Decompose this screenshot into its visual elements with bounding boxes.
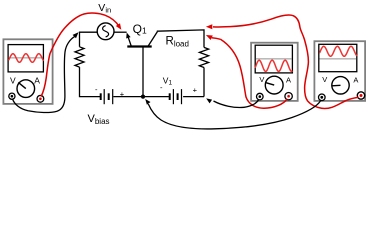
red probe wire: meter 3 red terminal looping left and over the top to R_load top node: [213, 15, 359, 109]
red probe wire: meter 2 red terminal to R_load top node: [221, 39, 288, 108]
circuit schematic: common-base amplifier with three multimeters: [0, 0, 371, 136]
meter 2 black terminal: [257, 93, 264, 100]
svg-text:Q1: Q1: [133, 22, 147, 36]
AC source V_in (circle with sine squiggle): [97, 23, 114, 40]
meter 1 waveform: [9, 54, 43, 63]
meter 1 black terminal: [9, 93, 15, 99]
meter 1 body (input voltmeter): [3, 39, 52, 104]
svg-text:Vbias: Vbias: [88, 113, 110, 126]
transistor base lead down to junction: [142, 47, 144, 97]
svg-text:A: A: [34, 75, 40, 85]
meter 2 waveform: [255, 60, 292, 71]
meter 3 screen center line: [320, 58, 357, 60]
svg-text:Rload: Rload: [166, 36, 189, 49]
svg-text:V: V: [10, 75, 16, 85]
transistor Q1 base bar: [127, 45, 151, 47]
resistor R_load zigzag: [199, 47, 208, 67]
meter 3 black terminal: [319, 94, 326, 101]
wire: bottom rail V1 to R_load bottom corner: [183, 96, 204, 98]
meter 3 body (voltmeter collector-emitter): [314, 41, 365, 101]
black probe wire: meter 2 black terminal to R_load bottom / V1+ node: [214, 100, 259, 108]
wire: R_load bottom lead down to bottom rail corner: [203, 68, 205, 97]
meter 2 knob: [265, 76, 283, 94]
svg-text:A: A: [286, 75, 291, 84]
meter 2 screen: [255, 45, 292, 73]
transistor Q1 emitter lead with arrow: [128, 36, 131, 46]
wire: resistor bottom to bottom rail: [80, 67, 101, 97]
meter 1 knob: [17, 80, 35, 98]
svg-text:V: V: [322, 75, 327, 84]
meter 1 screen: [8, 45, 43, 72]
meter 3 screen: [319, 44, 357, 71]
svg-text:Vin: Vin: [98, 2, 111, 15]
meter 2 body (voltmeter across R_load): [251, 43, 298, 101]
svg-text:V1: V1: [163, 76, 173, 87]
meter 1 screen center line: [9, 57, 43, 59]
junction node dot: [141, 95, 145, 99]
svg-text:+: +: [193, 86, 198, 95]
battery V1 plates: [169, 93, 171, 100]
meter 2 red terminal: [285, 93, 292, 100]
transistor Q1 collector lead: [148, 32, 157, 46]
svg-text:A: A: [353, 76, 358, 85]
black probe wire: meter 1 black terminal to Vin-left corner node: [13, 37, 75, 113]
meter 3 waveform: [320, 46, 357, 56]
meter 1 red terminal: [37, 95, 44, 102]
svg-text:-: -: [95, 85, 98, 94]
wire: bottom rail V_bias to emitter junction to V1: [113, 96, 169, 98]
red probe wire: meter 1 red terminal to Vin/base node: [41, 13, 119, 97]
meter 3 knob: [332, 77, 349, 94]
wire: top-left horizontal from corner to Vin source: [79, 31, 98, 33]
svg-text:V: V: [259, 75, 264, 84]
black probe wire: meter 3 black terminal to emitter junction: [148, 101, 320, 129]
wire: left vertical from top corner into resistor: [79, 32, 81, 47]
wire: collector top rail to R_load corner: [157, 30, 204, 48]
battery V_bias plates: [100, 93, 102, 100]
resistor (bias side) zigzag: [75, 47, 84, 67]
wire: from Vin source right side to transistor emitter: [114, 31, 127, 33]
meter 2 screen center line: [256, 58, 292, 60]
meter 3 red terminal: [357, 92, 364, 99]
